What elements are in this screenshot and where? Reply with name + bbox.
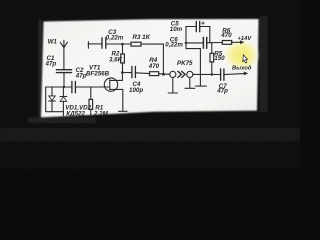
- coax connector socket 1: [170, 71, 176, 77]
- resistor R1: [89, 87, 93, 116]
- coax cable PK75 chevrons: [178, 71, 185, 77]
- wire decoupling ground drop: [186, 43, 200, 86]
- ground (C3 left): [87, 42, 89, 48]
- resistor R2: [121, 44, 125, 72]
- resistor R4: [150, 72, 170, 76]
- transistor VT1: [104, 73, 123, 112]
- wire drain to output line: [122, 72, 131, 74]
- capacitor C4: [132, 67, 150, 78]
- capacitor C2: [72, 82, 110, 93]
- coax connector socket 2: [187, 71, 193, 77]
- wire output line: [193, 73, 221, 75]
- node dot R4/riser: [162, 73, 165, 76]
- resistor R3: [131, 42, 163, 46]
- node dot R2 top: [121, 43, 124, 46]
- ground (connector 2): [185, 78, 195, 89]
- antenna W1: [60, 40, 67, 69]
- diode VD2: [60, 87, 67, 116]
- wire feed riser: [162, 44, 164, 74]
- wire decoupling loop: [186, 27, 210, 43]
- white schematic page: [41, 19, 259, 117]
- black video background: [0, 0, 300, 169]
- node dot C1/VD2: [63, 86, 65, 88]
- wire node A: [46, 86, 72, 88]
- capacitor C7: [221, 69, 244, 80]
- wire diode return loop: [46, 87, 64, 112]
- node dot R5 bottom: [211, 73, 214, 76]
- diode VD1: [49, 87, 56, 112]
- resistor R5: [210, 43, 214, 75]
- wire top rail: [88, 43, 102, 45]
- arrow +14V: [240, 40, 244, 44]
- capacitor C1: [57, 70, 72, 87]
- yellow cursor highlight glow: [223, 39, 261, 72]
- film grain overlay: [0, 0, 300, 169]
- capacitor C3: [102, 38, 131, 48]
- mouse cursor: [243, 55, 248, 63]
- arrow output: [244, 71, 248, 75]
- node dot loop corner: [185, 42, 188, 45]
- capacitor C5: [186, 22, 210, 32]
- node dot drain: [121, 71, 124, 74]
- ground (source): [119, 110, 127, 112]
- ground (connector 1): [168, 78, 177, 94]
- resistor R6: [222, 41, 240, 45]
- capacitor C6: [186, 38, 222, 49]
- ground (decoupling): [196, 85, 206, 87]
